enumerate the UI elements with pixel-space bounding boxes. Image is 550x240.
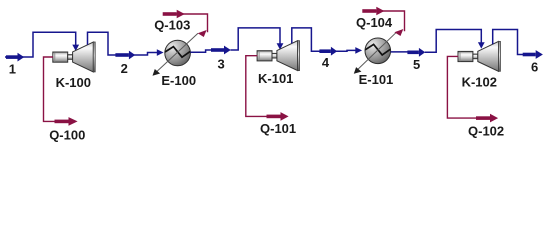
energy stream Q-101 arrow bbox=[267, 112, 289, 121]
svg-text:E-101: E-101 bbox=[359, 72, 394, 87]
cooler E-100 bbox=[165, 40, 191, 66]
svg-text:Q-101: Q-101 bbox=[260, 121, 296, 136]
svg-text:E-100: E-100 bbox=[161, 73, 196, 88]
svg-text:Q-102: Q-102 bbox=[468, 124, 504, 139]
wire stream 2 to E-100 bbox=[134, 53, 158, 56]
Q-103 connection arrowhead bbox=[198, 30, 207, 37]
wire E-100 to stream 3 bbox=[190, 50, 212, 52]
cooler E-101 bbox=[365, 38, 391, 64]
stream 5 arrow bbox=[407, 48, 425, 57]
K-101 inlet arrowhead bbox=[277, 43, 284, 49]
svg-text:1: 1 bbox=[9, 61, 16, 76]
energy stream Q-100 wire bbox=[44, 57, 56, 121]
svg-text:K-100: K-100 bbox=[56, 75, 91, 90]
wire stream 4 to E-101 bbox=[336, 49, 356, 52]
wire stream 3 into K-101 loop bbox=[231, 28, 281, 50]
energy stream Q-103 arrow bbox=[163, 10, 185, 19]
E-100 duty diagonal bbox=[156, 33, 199, 72]
E-101 inlet arrowhead bbox=[355, 47, 362, 54]
energy stream Q-102 arrow bbox=[476, 114, 498, 123]
stream 3 arrow bbox=[211, 46, 231, 55]
E-101 duty diagonal bbox=[357, 32, 398, 71]
svg-text:K-101: K-101 bbox=[258, 71, 293, 86]
wire E-101 to stream 5 bbox=[391, 51, 408, 53]
svg-text:Q-100: Q-100 bbox=[49, 128, 85, 143]
energy stream Q-102 wire bbox=[447, 56, 476, 118]
energy stream Q-100 arrow bbox=[55, 117, 78, 126]
stream 4 arrow bbox=[319, 47, 337, 56]
svg-text:3: 3 bbox=[218, 57, 225, 72]
E-100 inlet arrowhead bbox=[157, 49, 164, 56]
wire K-102 outlet to stream 6 bbox=[493, 30, 524, 55]
energy stream Q-101 wire bbox=[246, 56, 267, 117]
K-102 inlet arrowhead bbox=[478, 42, 485, 48]
wire K-101 outlet to stream 4 bbox=[292, 28, 321, 51]
energy stream Q-103 wire bbox=[176, 14, 208, 32]
svg-text:6: 6 bbox=[531, 59, 538, 74]
svg-text:Q-104: Q-104 bbox=[356, 15, 393, 30]
svg-text:2: 2 bbox=[121, 61, 128, 76]
svg-text:4: 4 bbox=[322, 55, 330, 70]
energy stream Q-104 arrow bbox=[362, 7, 384, 16]
compressor K-102 bbox=[458, 41, 500, 71]
stream 2 arrow bbox=[115, 51, 135, 60]
wire stream 1 into K-100 loop bbox=[5, 32, 76, 57]
svg-text:Q-103: Q-103 bbox=[154, 18, 190, 33]
Q-104 connection arrowhead bbox=[394, 29, 403, 36]
wire stream 5 into K-102 loop bbox=[425, 30, 482, 53]
svg-text:5: 5 bbox=[413, 57, 420, 72]
wire K-100 outlet to stream 2 bbox=[88, 32, 117, 55]
stream 6 arrow bbox=[523, 50, 543, 59]
compressor K-100 bbox=[53, 42, 95, 72]
E-100 duty black arrowhead bbox=[153, 69, 161, 76]
stream 1 arrow bbox=[6, 53, 24, 62]
svg-text:K-102: K-102 bbox=[462, 75, 497, 90]
energy stream Q-104 wire bbox=[375, 11, 405, 31]
E-101 duty black arrowhead bbox=[354, 67, 362, 74]
K-100 inlet arrowhead bbox=[72, 45, 79, 51]
compressor K-101 bbox=[257, 41, 299, 71]
